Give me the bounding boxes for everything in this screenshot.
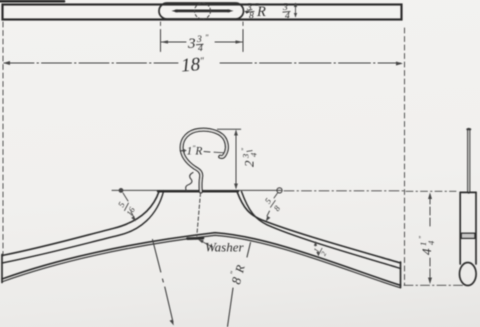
left arm second edge B <box>2 192 164 264</box>
hidden circle (dashed) at slot center <box>195 3 211 19</box>
right projection/extension dashed line <box>404 28 406 285</box>
reference centerline to side view (dash-dot) <box>284 190 406 192</box>
label 3/8 R <box>246 2 266 22</box>
left projection/extension dashed line <box>2 22 4 256</box>
svg-text:4: 4 <box>249 152 259 157</box>
label 5/8 (rotated) <box>261 194 284 214</box>
label 4 1/4 (rotated) <box>418 236 436 255</box>
label 2 3/4 (rotated) <box>241 148 259 167</box>
side view: washer band <box>461 233 475 238</box>
label 3/4 (bar width) <box>282 3 290 22</box>
svg-text:16: 16 <box>124 205 137 218</box>
label 1/2 (thickness, rotated) <box>312 244 329 258</box>
svg-text:8: 8 <box>271 203 282 213</box>
right arm second edge B' <box>242 192 401 269</box>
svg-text:″: ″ <box>241 148 249 151</box>
leader for 5/8 (right shoulder) <box>267 193 278 216</box>
leader for 5/16 (left shoulder) <box>123 193 135 220</box>
thickness dim arrows on right arm <box>314 241 320 257</box>
radius line left (dash-dot with arrow) <box>153 240 174 323</box>
dimension line 3 3/4 <box>161 40 244 43</box>
node: right reference circle <box>277 188 282 193</box>
dimension 3/4 vertical arrow in bar <box>294 3 297 18</box>
side view: bottom round <box>460 263 477 286</box>
svg-text:2: 2 <box>242 160 257 167</box>
label 8" R (rotated) <box>226 262 248 286</box>
scan mark top-left <box>0 0 64 3</box>
svg-text:4: 4 <box>419 248 434 255</box>
svg-text:R: R <box>256 4 266 20</box>
left shoulder outer curve + left arm top edge A <box>2 192 159 256</box>
svg-text:8: 8 <box>249 12 254 22</box>
neck twist squiggle <box>186 173 193 192</box>
node: left reference dot <box>119 188 124 193</box>
dimension line 18 (dash-dot) <box>3 61 403 66</box>
slot: thick line <box>176 9 229 12</box>
leader arrow for 1 R <box>180 151 224 153</box>
dim 4 1/4: bottom reference dash-dot <box>404 284 467 286</box>
svg-text:4: 4 <box>285 12 290 22</box>
leader arrow for 3/8 R <box>245 10 252 12</box>
right shoulder outer curve + right arm top edge A' <box>237 192 401 264</box>
svg-text:3: 3 <box>187 36 196 52</box>
extension lines for 3 3/4 dim <box>160 22 162 27</box>
dim 2 3/4: vertical line with arrows <box>234 130 238 190</box>
hook (wire): outline via double stroke <box>182 130 227 192</box>
svg-text:5: 5 <box>116 200 127 208</box>
svg-text:5: 5 <box>263 196 274 205</box>
side view: body strip <box>460 191 476 193</box>
svg-text:Washer: Washer <box>205 240 244 255</box>
svg-text:4: 4 <box>426 240 436 245</box>
hidden wire line (dashed) through body <box>197 193 201 236</box>
shoulder reference line <box>112 189 281 191</box>
slot boss: stadium outline in bar <box>159 3 244 19</box>
top view: blank bar outline <box>3 5 402 20</box>
side view: wire top end <box>467 128 470 130</box>
svg-text:″: ″ <box>418 236 426 239</box>
dim 4 1/4: top reference dash-dot <box>406 190 456 192</box>
dim 2 3/4: top extension line <box>217 128 240 130</box>
washer leader arrow <box>201 241 213 247</box>
right tip end <box>400 262 402 288</box>
left tip end <box>1 255 3 283</box>
label 3 3/4 <box>187 33 209 54</box>
dim 4 1/4: vertical line with arrows <box>428 193 432 285</box>
svg-text:18″: 18″ <box>180 54 205 77</box>
hanger flat top edge <box>158 190 238 192</box>
radius line right (leader for 8 R) <box>247 243 251 258</box>
svg-text:4: 4 <box>198 44 203 54</box>
label 5/16 (rotated) <box>114 198 138 218</box>
side view: hook wire <box>467 130 470 193</box>
washer (front view, edge) <box>188 237 204 240</box>
svg-text:1″R: 1″R <box>187 144 203 158</box>
bottom edge arc C <box>2 233 401 286</box>
bottom edge arc C2 <box>2 235 401 287</box>
svg-text:″: ″ <box>205 33 209 42</box>
